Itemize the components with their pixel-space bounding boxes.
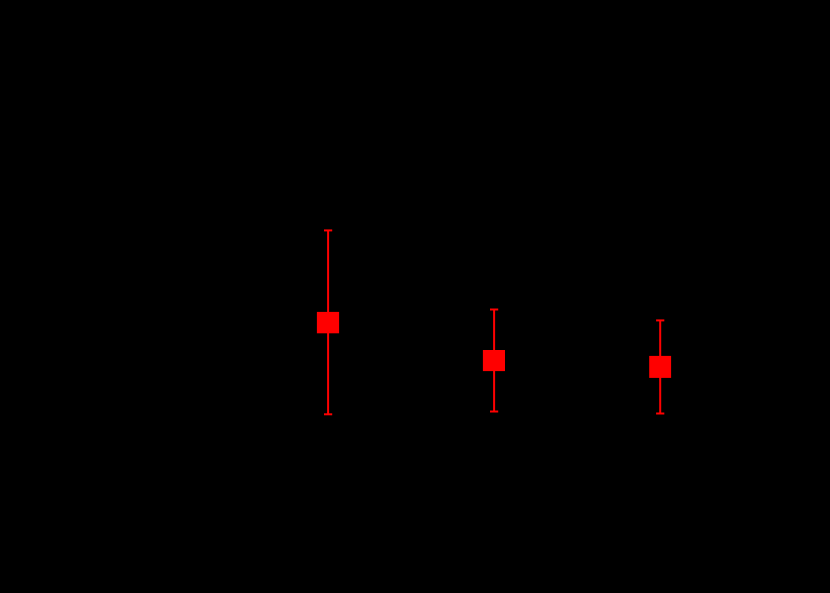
marker square 2 bbox=[483, 350, 505, 371]
error bar 3 whisker bbox=[656, 320, 664, 413]
error bar 2 whisker bbox=[490, 310, 498, 412]
marker square 1 bbox=[317, 312, 339, 333]
marker square 3 bbox=[649, 356, 671, 378]
error bar 1 whisker bbox=[324, 230, 332, 414]
